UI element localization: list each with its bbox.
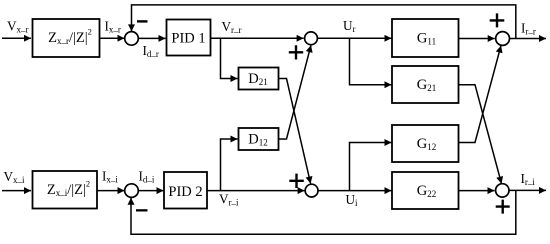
svg-text:G12: G12	[417, 136, 436, 152]
summing junction S3	[496, 32, 510, 46]
wire branch U_r down to block G21	[350, 38, 392, 84]
wire Sb to block PID2	[138, 190, 164, 192]
block G22	[392, 172, 459, 209]
wire PID2 to summing junction S4	[207, 190, 305, 192]
wire feedback bottom from I_r_i to Sb	[131, 190, 516, 234]
wire S1 to block PID1	[138, 37, 166, 39]
svg-text:Id_i: Id_i	[139, 169, 155, 185]
wire S3 to output I_r_r	[510, 38, 547, 40]
svg-text:G22: G22	[417, 183, 436, 199]
wire block Z2 to summing junction Sb	[97, 190, 125, 192]
svg-text:Id_r: Id_r	[143, 43, 159, 59]
wire G21 diagonal to summing junction S5	[459, 85, 502, 184]
svg-text:Ur: Ur	[343, 18, 356, 34]
plus sign at S2	[289, 45, 303, 59]
wire PID1 to summing junction S2	[211, 37, 304, 39]
plus sign at S5	[496, 200, 510, 214]
plus sign at S4	[289, 174, 304, 188]
svg-text:Ix_r: Ix_r	[105, 19, 121, 35]
wire G22 to summing junction S5	[459, 190, 495, 192]
summing junction S4	[305, 184, 318, 197]
minus sign at Sb	[136, 209, 148, 211]
block D21	[239, 68, 279, 90]
block G21	[392, 66, 459, 103]
wire S4 to block G22	[318, 190, 392, 192]
svg-text:D12: D12	[248, 132, 267, 148]
wire branch U_i up to block G12	[350, 143, 392, 191]
wire input V_x_i to block Z2	[2, 190, 31, 192]
summing junction S2	[305, 32, 318, 45]
svg-text:Ix_i: Ix_i	[102, 169, 118, 185]
svg-text:Zx_i/|Z|2: Zx_i/|Z|2	[47, 179, 90, 199]
svg-text:G21: G21	[417, 77, 436, 93]
svg-text:PID 1: PID 1	[171, 31, 205, 47]
svg-text:Ui: Ui	[346, 192, 359, 208]
block D12	[239, 128, 279, 150]
block G11	[392, 19, 459, 57]
summing junction S5	[496, 184, 509, 197]
wire D12 diagonal to summing junction S2	[278, 45, 311, 139]
wire S5 to output I_r_i	[509, 189, 546, 191]
wire D21 diagonal to summing junction S4	[278, 79, 311, 184]
minus sign at S1	[137, 20, 148, 22]
svg-text:G11: G11	[417, 31, 436, 47]
svg-text:Vx_i: Vx_i	[4, 169, 26, 185]
svg-text:Vx_r: Vx_r	[7, 19, 29, 35]
wire branch V_r_i up to block D12	[221, 139, 238, 191]
summing junction S1	[125, 32, 139, 46]
block PID1	[167, 20, 211, 56]
wire S2 to block G11	[317, 37, 391, 39]
plus sign at S3	[490, 13, 505, 27]
svg-text:Ir_i: Ir_i	[521, 171, 536, 187]
wire input V_x_r to block Z1	[2, 37, 31, 39]
svg-text:Vr_r: Vr_r	[222, 19, 242, 35]
wire G11 to summing junction S3	[459, 38, 495, 40]
block Z1 Z_x_r/|Z|^2	[33, 19, 100, 57]
svg-text:Zx_r/|Z|2: Zx_r/|Z|2	[48, 27, 92, 47]
wire feedback top from I_r_r to S1	[132, 5, 516, 39]
svg-text:Ir_r: Ir_r	[521, 21, 536, 37]
wire branch V_r_r down to block D21	[221, 38, 238, 78]
block PID2	[164, 172, 207, 209]
wire G12 diagonal to summing junction S3	[459, 46, 502, 143]
wire block Z1 to summing junction S1	[100, 37, 125, 39]
block G12	[392, 125, 459, 162]
svg-text:PID 2: PID 2	[168, 184, 202, 200]
svg-text:Vr_i: Vr_i	[219, 192, 239, 208]
block Z2 Z_x_i/|Z|^2	[33, 171, 98, 209]
svg-text:D21: D21	[248, 71, 267, 87]
summing junction Sb	[125, 184, 139, 198]
